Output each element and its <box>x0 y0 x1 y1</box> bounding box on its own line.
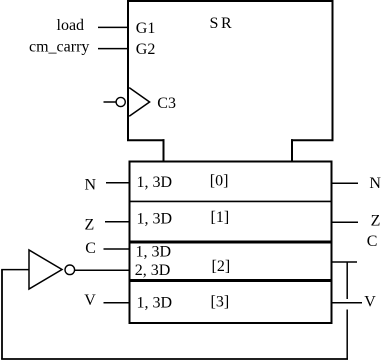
input wire Z <box>105 221 130 223</box>
svg-text:Z: Z <box>85 216 95 233</box>
svg-text:1, 3D: 1, 3D <box>136 244 172 261</box>
feedback wire bottom horizontal <box>1 358 348 360</box>
svg-text:N: N <box>369 175 381 192</box>
inverter U2 input wire <box>1 269 29 271</box>
input wire load <box>98 26 128 28</box>
register control block SR outline <box>128 1 333 141</box>
svg-text:[1]: [1] <box>211 209 230 226</box>
svg-text:C: C <box>367 233 378 250</box>
svg-text:Z: Z <box>371 213 381 230</box>
control block left leg to array <box>163 139 165 161</box>
svg-text:[2]: [2] <box>212 258 231 275</box>
input wire V <box>104 302 130 304</box>
output wire Z <box>332 221 359 223</box>
input wire cm_carry <box>98 48 128 50</box>
svg-text:G2: G2 <box>136 41 156 58</box>
control block right leg to array <box>291 139 293 161</box>
output stub wire C <box>332 261 358 263</box>
svg-text:[3]: [3] <box>211 293 230 310</box>
svg-text:SR: SR <box>210 15 233 32</box>
svg-text:cm_carry: cm_carry <box>29 39 89 56</box>
clock input C3 edge-trigger triangle <box>129 88 149 117</box>
svg-text:1, 3D: 1, 3D <box>137 294 173 311</box>
input wire C <box>104 248 130 250</box>
control block bottom edge left segment <box>127 139 165 141</box>
svg-text:2, 3D: 2, 3D <box>135 262 171 279</box>
row separator bit0/bit1 <box>130 200 332 202</box>
svg-text:V: V <box>364 294 376 311</box>
feedback wire right vertical (below V stub) <box>346 310 348 360</box>
svg-text:C3: C3 <box>157 95 176 112</box>
inverter U2 triangle <box>29 250 62 289</box>
svg-text:1, 3D: 1, 3D <box>137 174 173 191</box>
clock input C3 polarity bubble <box>116 97 125 106</box>
svg-text:G1: G1 <box>136 20 156 37</box>
register array block outline <box>130 162 332 324</box>
feedback wire left vertical <box>1 270 3 360</box>
output stub wire V <box>332 302 363 304</box>
inverter U2 output wire to pin 2,3D <box>75 269 130 271</box>
svg-text:N: N <box>85 177 97 194</box>
wire vertical from C stub toward V stub <box>346 262 348 299</box>
row separator bit1/bit2 (thick) <box>130 241 332 244</box>
input wire N <box>106 182 130 184</box>
svg-text:load: load <box>57 17 85 34</box>
output wire N <box>332 182 359 184</box>
clock input C3 stub wire <box>104 101 116 103</box>
inverter U2 output bubble <box>65 265 75 275</box>
svg-text:[0]: [0] <box>210 173 229 190</box>
control block bottom edge right segment <box>291 139 334 141</box>
row separator bit2/bit3 (thick) <box>130 279 332 282</box>
svg-text:1, 3D: 1, 3D <box>137 210 173 227</box>
svg-text:V: V <box>84 292 96 309</box>
svg-text:C: C <box>85 240 96 257</box>
